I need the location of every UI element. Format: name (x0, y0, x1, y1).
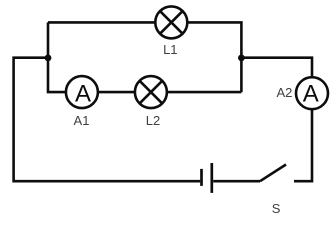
node left junction (45, 55, 52, 62)
lamp L2 (135, 76, 167, 108)
ammeter A2 (296, 77, 328, 109)
svg-text:S: S (272, 201, 281, 216)
wire middle branch right of L2 (167, 91, 242, 94)
svg-text:L1: L1 (163, 42, 177, 57)
wire top branch left of L1 (48, 21, 155, 24)
node right junction (238, 55, 245, 62)
wire A2 down to switch right contact (294, 109, 312, 181)
svg-text:A: A (75, 80, 91, 107)
switch S blade (260, 165, 286, 182)
wire left rail and bottom wire to battery (14, 58, 201, 182)
svg-text:A2: A2 (276, 85, 292, 100)
svg-text:A: A (303, 81, 319, 108)
lamp L1 (155, 6, 187, 38)
svg-text:A1: A1 (74, 113, 90, 128)
wire right junction to A2 (241, 58, 312, 77)
svg-text:L2: L2 (146, 113, 160, 128)
wire A1 to L2 (98, 91, 135, 94)
battery cell short negative plate (200, 169, 203, 186)
wire battery to switch (213, 180, 260, 183)
ammeter A1 (66, 76, 98, 108)
wire top branch right of L1 into right rail (187, 22, 241, 92)
wire inner-left vertical with middle-branch stub (48, 22, 66, 92)
battery cell long positive plate (210, 163, 213, 193)
